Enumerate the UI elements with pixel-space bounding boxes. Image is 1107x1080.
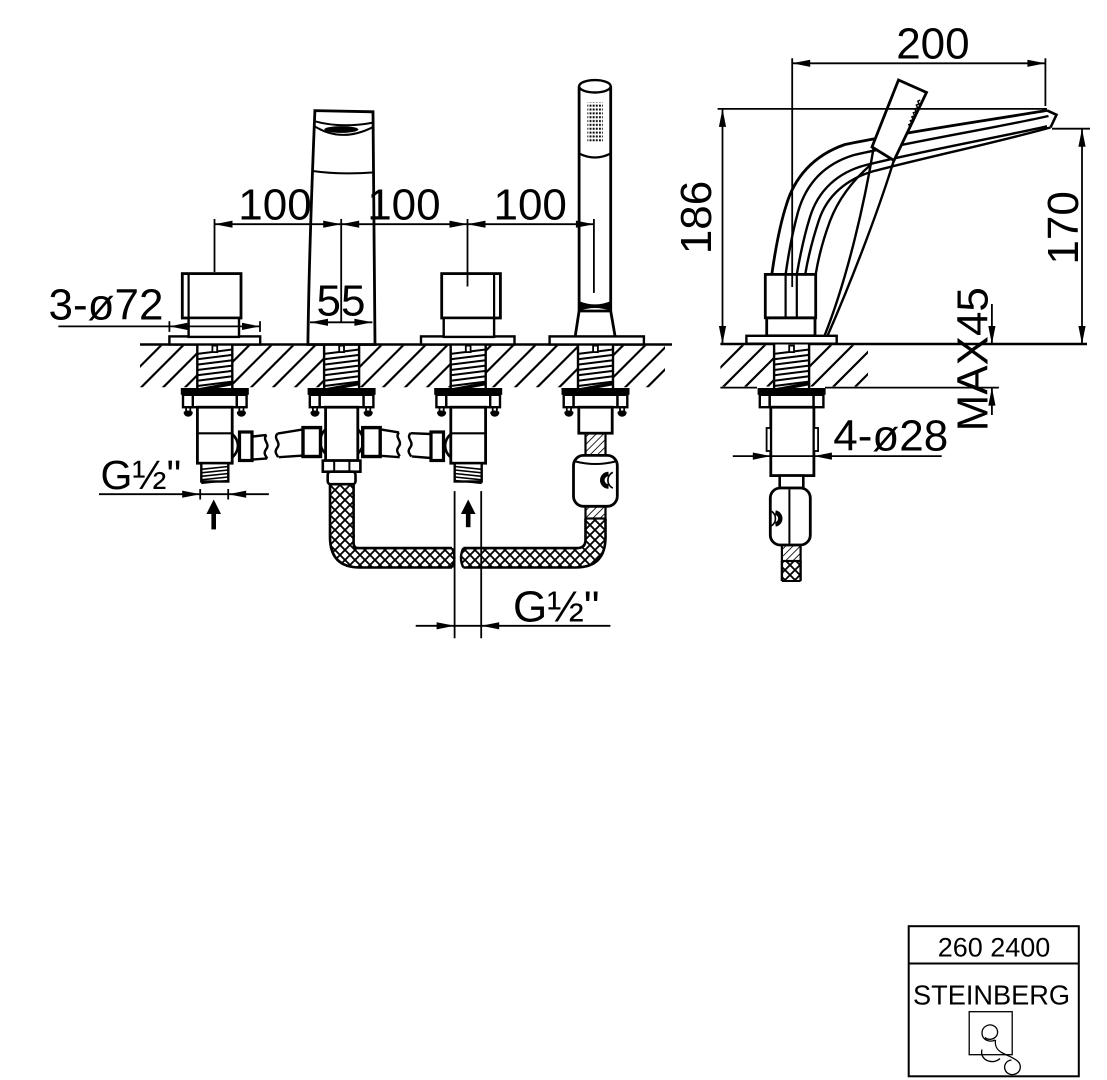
svg-text:3-ø72: 3-ø72	[49, 280, 164, 329]
svg-text:100: 100	[238, 181, 311, 230]
shower hose below elbow	[782, 545, 801, 561]
shower hose tube (upper)	[586, 433, 606, 455]
spout tee body below deck	[326, 407, 358, 460]
hose coupling nut	[328, 472, 356, 485]
threaded shank, hand shower	[578, 345, 613, 391]
shower holder silhouette to deck	[825, 149, 874, 336]
svg-text:STEINBERG: STEINBERG	[913, 980, 1070, 1011]
svg-text:100: 100	[493, 181, 566, 230]
threaded shank, spout	[324, 345, 359, 391]
hot handle knob	[182, 274, 241, 337]
deck / bath rim (plan view)	[118, 345, 690, 389]
escutcheon plate, hot handle	[169, 336, 260, 344]
shower holder base	[575, 311, 615, 336]
shower swivel elbow	[574, 455, 618, 506]
svg-text:186: 186	[672, 181, 721, 254]
svg-text:260 2400: 260 2400	[938, 932, 1051, 962]
svg-text:55: 55	[317, 276, 366, 325]
dimension 170 (spout outlet height)	[1052, 128, 1090, 130]
escutcheon plate (side view)	[746, 336, 836, 344]
svg-text:170: 170	[1039, 191, 1088, 264]
svg-text:100: 100	[367, 181, 440, 230]
Steinberg logo swirl	[982, 1025, 1020, 1075]
flow direction arrow, spout supply	[461, 500, 476, 515]
hand shower connection body below deck	[579, 407, 612, 433]
threaded shank (side view)	[774, 345, 809, 391]
escutcheon plate, cold handle	[421, 336, 515, 344]
hot handle valve body with G1/2 tail	[197, 407, 252, 483]
mounting washer + bracket, cold handle	[434, 388, 502, 407]
svg-text:4-ø28: 4-ø28	[833, 412, 948, 461]
braided supply hose from tee (down and to the right)	[330, 484, 454, 567]
svg-text:200: 200	[896, 19, 969, 68]
bath spout (front view)	[308, 111, 375, 345]
svg-text:G½": G½"	[513, 583, 600, 632]
svg-text:G½": G½"	[101, 452, 182, 498]
spout tip	[1047, 110, 1057, 127]
mounting washer + bracket (side view)	[758, 388, 826, 407]
dimension 186 (height)	[718, 108, 1047, 110]
hex nut under tee	[323, 461, 361, 472]
connector neck	[780, 476, 804, 488]
flow direction arrow, hot valve	[206, 500, 221, 515]
dimension chain 100/100/100	[215, 223, 594, 225]
Steinberg logo square	[969, 1012, 1012, 1055]
shower supply body below deck (side view)	[771, 407, 814, 475]
shower hose tube (lower)	[586, 506, 606, 518]
hand shower wand in holder	[579, 86, 611, 311]
dimension MAX45 (deck thickness)	[991, 304, 993, 344]
dimension 55 (spout width)	[310, 321, 372, 323]
cold handle valve body with G1/2 tail (mirrored)	[431, 407, 486, 483]
threaded shank, hot handle	[197, 345, 232, 391]
mounting washer + bracket, hot handle	[181, 388, 249, 407]
spout body column (side view)	[767, 318, 815, 336]
dimension 200 (reach)	[792, 62, 1045, 64]
escutcheon plate, hand shower	[550, 336, 644, 344]
deck / bath rim (side view)	[700, 345, 898, 389]
svg-text:MAX45: MAX45	[949, 287, 998, 431]
tee left connector	[303, 428, 321, 457]
curved spout blade (side profile)	[772, 110, 1047, 274]
mounting washer + bracket, hand shower	[562, 388, 630, 407]
flexible link hose, hot valve to tee	[252, 435, 267, 437]
flexible link hose, tee to cold valve	[380, 429, 399, 432]
cold handle knob (mirrored)	[442, 274, 501, 337]
hand shower wand (side view, tilted)	[872, 80, 927, 161]
title block frame	[909, 926, 1079, 1076]
mounting washer + bracket, spout	[308, 388, 376, 407]
tee right connector	[363, 428, 381, 457]
threaded shank, cold handle	[451, 345, 486, 391]
swivel elbow (side view)	[770, 488, 810, 545]
